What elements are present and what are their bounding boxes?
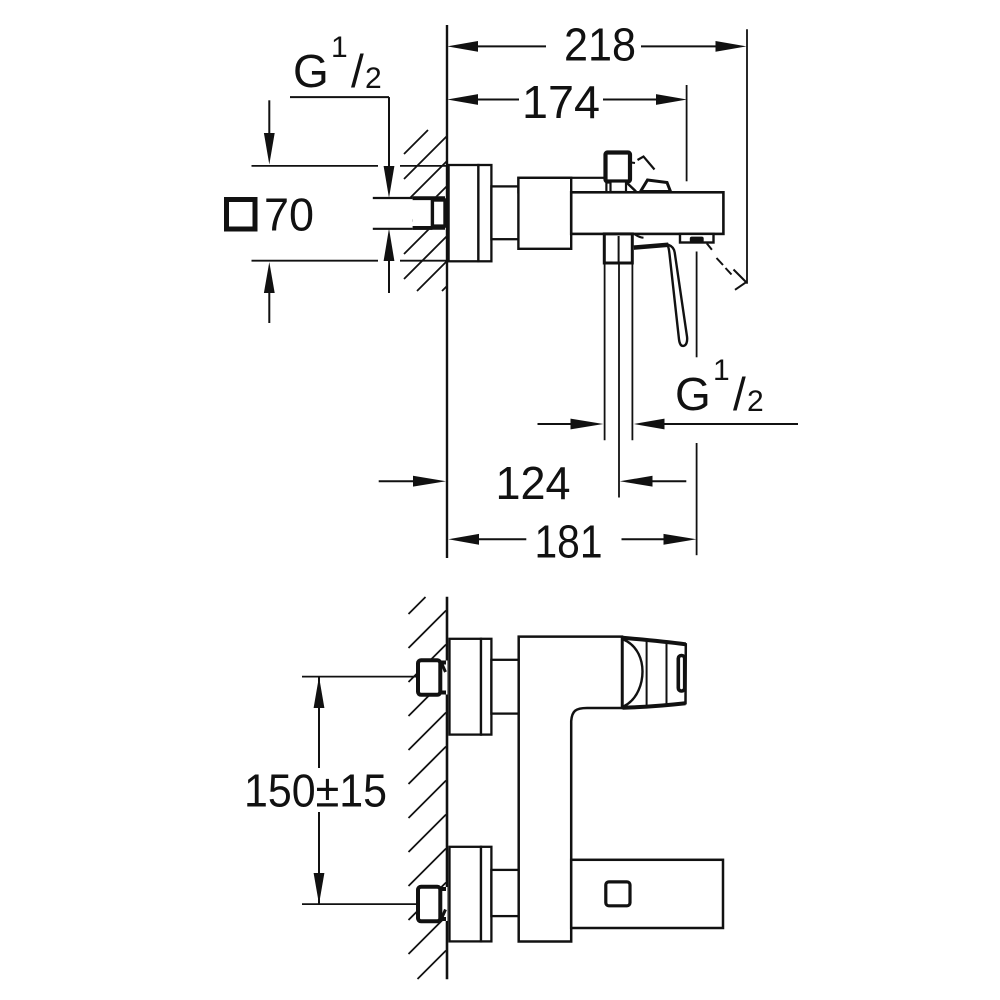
dim 70 extension lines bbox=[252, 166, 471, 261]
lever blade bbox=[668, 245, 688, 346]
body L-shape bbox=[519, 637, 622, 942]
label G 1/2 top bbox=[293, 31, 382, 97]
G1/2 arrow up to pipe bottom bbox=[384, 229, 395, 294]
aerator slot bbox=[690, 237, 704, 243]
hatch top view bbox=[404, 130, 447, 291]
flange escutcheon bbox=[449, 165, 479, 261]
phantom hose dashes bbox=[707, 243, 747, 289]
dim 174 line bbox=[447, 94, 687, 105]
svg-text:G: G bbox=[675, 368, 711, 420]
knob tilted bbox=[641, 180, 671, 192]
hatch bottom view bbox=[409, 597, 447, 979]
svg-text:124: 124 bbox=[496, 457, 571, 509]
svg-text:2: 2 bbox=[747, 385, 764, 418]
union nut bottom front bbox=[418, 887, 448, 922]
connector top front bbox=[491, 660, 518, 714]
svg-text:218: 218 bbox=[564, 19, 636, 71]
handle front bbox=[623, 638, 686, 708]
handle end slot bbox=[678, 656, 684, 692]
phantom chevron bbox=[638, 157, 655, 170]
svg-text:70: 70 bbox=[264, 189, 314, 241]
svg-text:181: 181 bbox=[535, 516, 603, 568]
body bar bbox=[571, 192, 723, 234]
spout front bbox=[571, 860, 723, 928]
label G 1/2 lower bbox=[675, 354, 764, 420]
svg-text:G: G bbox=[293, 45, 329, 97]
nut bottom extension bbox=[302, 903, 418, 905]
stem-knob diagonal bbox=[627, 183, 637, 192]
G1/2 lower leader arrows bbox=[538, 419, 799, 430]
dim 218 line bbox=[447, 41, 746, 52]
handle dome arc bbox=[624, 640, 643, 707]
connector bottom front bbox=[491, 870, 518, 916]
svg-text:2: 2 bbox=[365, 62, 382, 95]
dim 181 bbox=[448, 534, 696, 545]
handle inner lines bbox=[646, 642, 648, 706]
spout square hole bbox=[606, 882, 630, 906]
svg-text:1: 1 bbox=[331, 31, 348, 64]
lever attachment bar bbox=[634, 245, 669, 248]
dim 218 extension bbox=[746, 29, 748, 283]
svg-text:/: / bbox=[733, 368, 746, 420]
shower outlet bbox=[604, 234, 632, 263]
lever pivot arc bbox=[635, 234, 644, 238]
dim 124 bbox=[379, 476, 687, 487]
union nut side bbox=[413, 196, 445, 229]
nut top extension bbox=[302, 676, 418, 678]
deck bbox=[518, 178, 606, 193]
inlet pipe bbox=[373, 198, 413, 229]
dim 174 extension bbox=[686, 85, 688, 181]
G1/2 arrow down to pipe top bbox=[384, 97, 395, 198]
G1/2 leader underline bbox=[290, 96, 389, 98]
extension at spout tip bbox=[696, 252, 698, 358]
phantom tick bbox=[630, 161, 636, 164]
escutcheon top front bbox=[450, 639, 482, 735]
cartridge stem bbox=[606, 153, 631, 182]
svg-text:/: / bbox=[351, 45, 364, 97]
svg-text:150±15: 150±15 bbox=[244, 765, 387, 817]
wall line bottom view bbox=[446, 597, 449, 980]
square symbol bbox=[227, 200, 256, 230]
svg-text:174: 174 bbox=[522, 76, 600, 128]
union nut top front bbox=[418, 660, 448, 695]
connector bbox=[491, 186, 518, 239]
dim 70 arrows bbox=[264, 100, 275, 323]
stem base bbox=[611, 182, 627, 193]
block bbox=[518, 178, 571, 249]
outlet extension lines bbox=[605, 263, 633, 498]
escutcheon bottom front bbox=[450, 847, 482, 942]
dim 150±15 bbox=[314, 677, 325, 905]
svg-text:1: 1 bbox=[713, 354, 730, 387]
aerator bbox=[680, 234, 714, 243]
wall line top view bbox=[446, 25, 448, 558]
